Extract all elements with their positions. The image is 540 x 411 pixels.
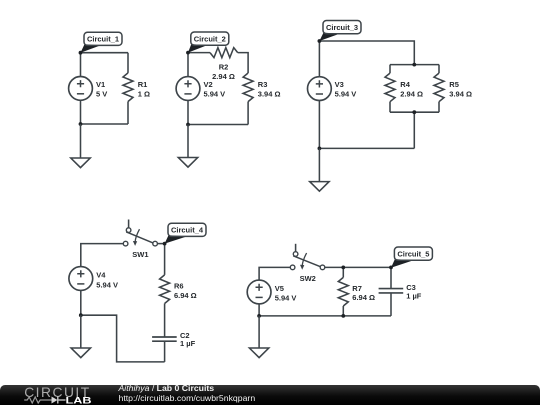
resistor R6 xyxy=(160,275,170,304)
label V2 5.94 V xyxy=(204,80,226,98)
wire circuit3 R4 top lead xyxy=(389,65,391,74)
wire circuit4 R6 top lead xyxy=(164,244,166,275)
wire circuit4 ground stub xyxy=(80,315,82,348)
label V1 5 V xyxy=(96,80,107,98)
svg-text:V1: V1 xyxy=(96,80,105,89)
wire circuit1 V1 bottom lead xyxy=(80,100,82,124)
wire circuit2 V2 bottom lead xyxy=(187,100,189,124)
label R3 3.94 ohm xyxy=(258,80,281,98)
node circuit5 R7 top junction xyxy=(341,266,345,270)
ground circuit1 xyxy=(71,158,90,168)
wire circuit3 V3 bottom lead xyxy=(318,101,320,149)
svg-text:Circuit_2: Circuit_2 xyxy=(194,34,226,43)
wire circuit5 ground stub xyxy=(258,316,260,348)
svg-text:SW1: SW1 xyxy=(132,250,148,259)
svg-text:5.94 V: 5.94 V xyxy=(275,294,297,303)
svg-text:6.94 Ω: 6.94 Ω xyxy=(352,293,375,302)
wire circuit3 ground stub xyxy=(318,148,320,181)
ground circuit5 xyxy=(249,348,268,358)
wire circuit3 V3 top lead xyxy=(318,41,320,77)
label C2 1 uF xyxy=(180,331,196,348)
svg-text:5.94 V: 5.94 V xyxy=(335,90,357,99)
svg-text:1 Ω: 1 Ω xyxy=(138,90,150,99)
wire circuit5 R7 top lead xyxy=(342,267,344,277)
wire circuit5 V5 bottom lead xyxy=(258,304,260,316)
ground circuit4 xyxy=(71,348,90,358)
wire circuit1 R1 top lead xyxy=(127,53,129,73)
svg-text:R6: R6 xyxy=(174,281,184,290)
wire circuit1 V1 top lead xyxy=(80,53,82,77)
wire circuit4 R6 to C2 xyxy=(164,304,166,337)
footer bar xyxy=(0,385,540,406)
node circuit2 bottom junction xyxy=(186,123,190,127)
wire circuit3 bottom xyxy=(319,147,414,149)
flag Circuit_3 xyxy=(319,21,361,42)
voltage source V4 xyxy=(69,267,93,291)
voltage source V3 xyxy=(308,77,332,101)
svg-text:2.94 Ω: 2.94 Ω xyxy=(212,72,235,81)
svg-text:SW2: SW2 xyxy=(300,274,316,283)
svg-text:Circuit_1: Circuit_1 xyxy=(87,35,119,44)
wire circuit1 top xyxy=(81,52,129,54)
node circuit3 top junction xyxy=(318,39,322,43)
capacitor C2 xyxy=(152,337,177,341)
switch SW2 xyxy=(290,244,325,270)
svg-text:Circuit_5: Circuit_5 xyxy=(397,249,429,258)
resistor R4 xyxy=(385,73,395,102)
wire circuit3 top xyxy=(319,41,414,65)
svg-text:V4: V4 xyxy=(96,271,106,280)
wire circuit1 R1 bottom lead xyxy=(127,102,129,125)
wire circuit2 top left xyxy=(188,52,210,54)
svg-text:1 µF: 1 µF xyxy=(180,339,196,348)
ground circuit2 xyxy=(178,158,197,168)
flag Circuit_1 xyxy=(81,32,123,53)
label R2 2.94 ohm xyxy=(212,62,235,81)
svg-text:5 V: 5 V xyxy=(96,90,107,99)
flag Circuit_5 xyxy=(391,247,432,268)
wire circuit5 R7 bottom lead xyxy=(342,306,344,316)
wire circuit3 parallel top bar xyxy=(390,64,439,66)
label R1 1 ohm xyxy=(138,80,150,98)
wire circuit5 bottom xyxy=(259,315,391,317)
svg-text:2.94 Ω: 2.94 Ω xyxy=(400,90,423,99)
wire circuit4 switch to node xyxy=(157,243,164,245)
label C3 1 uF xyxy=(406,283,422,301)
voltage source V5 xyxy=(247,280,271,304)
svg-text:R5: R5 xyxy=(449,80,459,89)
svg-text:1 µF: 1 µF xyxy=(406,291,422,300)
label R6 6.94 ohm xyxy=(174,281,197,300)
svg-text:Circuit_4: Circuit_4 xyxy=(171,226,204,235)
wire circuit2 top right xyxy=(238,53,248,73)
wire circuit3 R4 bottom lead xyxy=(389,102,391,113)
node circuit1 top junction xyxy=(79,51,83,55)
svg-text:V3: V3 xyxy=(335,80,344,89)
footer title text xyxy=(119,384,256,404)
label V3 5.94 V xyxy=(335,80,357,98)
svg-text:R2: R2 xyxy=(219,62,229,71)
wire circuit5 switch to C3 xyxy=(325,266,391,268)
label R5 3.94 ohm xyxy=(449,80,472,98)
label R7 6.94 ohm xyxy=(352,284,375,302)
node circuit5 R7 bottom junction xyxy=(341,314,345,318)
wire circuit1 bottom xyxy=(81,123,129,125)
svg-text:V5: V5 xyxy=(275,284,284,293)
svg-text:3.94 Ω: 3.94 Ω xyxy=(258,90,281,99)
wire circuit3 R5 bottom lead xyxy=(438,102,440,113)
svg-text:5.94 V: 5.94 V xyxy=(96,280,118,289)
wire circuit5 C3 top lead xyxy=(390,267,392,288)
wire circuit3 R5 top lead xyxy=(438,65,440,74)
resistor R5 xyxy=(434,73,444,102)
CircuitLab logo xyxy=(23,385,98,411)
svg-text:3.94 Ω: 3.94 Ω xyxy=(449,90,472,99)
svg-text:V2: V2 xyxy=(204,80,213,89)
node circuit4 flag junction xyxy=(163,242,167,246)
ground circuit3 xyxy=(310,182,329,192)
wire circuit2 bottom xyxy=(188,124,248,126)
voltage source V2 xyxy=(176,77,200,101)
label SW2 xyxy=(300,274,316,283)
node circuit5 bottom left junction xyxy=(257,314,261,318)
node circuit2 top junction xyxy=(186,51,190,55)
label R4 2.94 ohm xyxy=(400,80,423,98)
resistor R3 xyxy=(243,73,253,102)
svg-text:R7: R7 xyxy=(352,284,362,293)
resistor R1 xyxy=(123,73,133,102)
svg-text:6.94 Ω: 6.94 Ω xyxy=(174,291,197,300)
wire circuit2 right bottom lead xyxy=(247,102,249,125)
wire circuit4 C2 bottom lead xyxy=(164,341,166,362)
node circuit3 parallel top junction xyxy=(412,63,416,67)
resistor R7 xyxy=(338,277,348,306)
wire circuit1 ground stub xyxy=(80,124,82,158)
capacitor C3 xyxy=(379,289,404,293)
wire circuit2 ground stub xyxy=(187,125,189,158)
wire circuit5 top left xyxy=(259,267,290,280)
node circuit3 parallel bottom junction xyxy=(412,110,416,114)
node circuit5 flag junction xyxy=(389,266,393,270)
voltage source V1 xyxy=(69,77,93,101)
wire circuit4 bottom return xyxy=(81,315,165,362)
resistor R2 xyxy=(210,48,238,58)
svg-text:R3: R3 xyxy=(258,80,268,89)
wire circuit4 top left xyxy=(81,244,124,267)
wire circuit3 parallel bottom bar xyxy=(390,111,439,113)
node circuit1 bottom junction xyxy=(79,122,83,126)
switch SW1 xyxy=(123,220,157,246)
wire circuit3 center stub xyxy=(413,112,415,148)
wire circuit4 V4 bottom lead xyxy=(80,290,82,315)
flag Circuit_4 xyxy=(165,223,206,243)
label SW1 xyxy=(132,250,148,259)
svg-text:5.94 V: 5.94 V xyxy=(204,90,226,99)
wire circuit2 V2 top lead xyxy=(187,53,189,77)
node circuit4 bottom junction xyxy=(79,313,83,317)
svg-text:Circuit_3: Circuit_3 xyxy=(326,23,358,32)
label V4 5.94 V xyxy=(96,271,118,290)
label V5 5.94 V xyxy=(275,284,297,303)
svg-text:R1: R1 xyxy=(138,80,148,89)
svg-text:R4: R4 xyxy=(400,80,410,89)
svg-text:LAB: LAB xyxy=(66,395,92,405)
flag Circuit_2 xyxy=(188,32,229,53)
node circuit3 bottom junction xyxy=(318,147,322,151)
wire circuit5 C3 bottom lead xyxy=(390,293,392,316)
